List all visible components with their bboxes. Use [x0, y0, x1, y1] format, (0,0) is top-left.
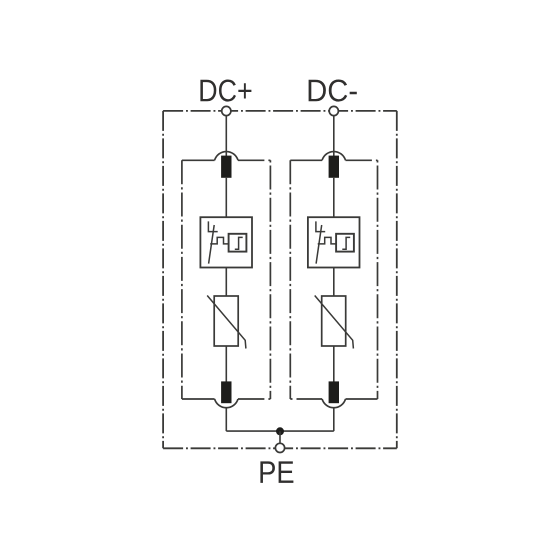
wire disconnector F2 to varistor RU2 [333, 268, 335, 297]
varistor RU1 diagonal stroke [207, 296, 246, 349]
thermal disconnector F2 box [308, 217, 360, 267]
thermal disconnector F1 box [200, 217, 252, 267]
terminal DC- (open circle) [329, 106, 338, 115]
varistor RU2 body [322, 296, 346, 346]
label DC- [309, 79, 357, 101]
module 1 bottom exit bump [215, 399, 238, 408]
disconnector F2 step-function symbol [342, 237, 350, 249]
module 2 top entry bump [322, 152, 345, 161]
wire module 1 to PE bus [225, 408, 227, 431]
disconnector F2 trip linkage step line [318, 237, 336, 244]
module 1 enclosure (dash-dot box) [182, 160, 271, 399]
terminal block X2 (top, filled) [329, 156, 339, 178]
wire varistor RU2 to bottom terminal block [333, 346, 335, 383]
disconnector F1 switch blade [209, 225, 215, 264]
wire from DC- terminal to terminal block X2 [333, 115, 335, 156]
disconnector F2 contact post [316, 221, 325, 231]
disconnector F2 switch blade [316, 225, 322, 264]
wire terminal block to disconnector F1 [225, 178, 227, 217]
terminal block X1 (top, filled) [221, 156, 231, 178]
outer device enclosure (dash-dot border) [163, 111, 397, 448]
disconnector F2 monitoring element box [336, 234, 354, 252]
disconnector F1 contact post [208, 221, 217, 231]
wire junction to PE terminal [279, 431, 281, 443]
disconnector F1 monitoring element box [229, 234, 247, 252]
module 2 bottom exit bump [322, 399, 345, 408]
terminal block X4 (bottom, filled) [329, 381, 339, 403]
terminal block X3 (bottom, filled) [221, 381, 231, 403]
wire disconnector F1 to varistor RU1 [225, 268, 227, 297]
disconnector F1 step-function symbol [235, 237, 243, 249]
varistor RU1 body [214, 296, 238, 346]
varistor RU2 diagonal stroke [315, 296, 354, 349]
junction node on PE bus [276, 427, 284, 435]
module 2 enclosure (dash-dot box) [290, 160, 377, 399]
PE bus wire [226, 430, 333, 432]
module 1 top entry bump [215, 152, 238, 161]
terminal PE (open circle) [275, 443, 284, 452]
wire from DC+ terminal to terminal block X1 [225, 115, 227, 156]
wire terminal block to disconnector F2 [333, 178, 335, 217]
label DC+ [200, 79, 251, 101]
wire module 2 to PE bus [333, 408, 335, 431]
wire varistor RU1 to bottom terminal block [225, 346, 227, 383]
terminal DC+ (open circle) [222, 106, 231, 115]
disconnector F1 trip linkage step line [210, 237, 228, 244]
label PE [260, 461, 293, 483]
